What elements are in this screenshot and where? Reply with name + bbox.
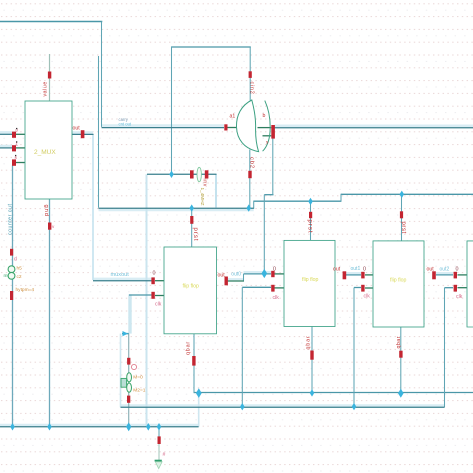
svg-text:d: d [14,257,17,263]
svg-text:#: # [163,452,166,458]
svg-text:hytpm=4: hytpm=4 [16,287,35,293]
svg-text:2_MUX: 2_MUX [34,149,56,156]
svg-text:out: out [73,126,81,132]
svg-text:0: 0 [153,271,156,277]
svg-text:m: m [4,274,8,279]
svg-text:0: 0 [456,267,459,273]
svg-text:out: out [218,273,226,279]
svg-text:b: b [263,113,266,119]
svg-text:M=0: M=0 [133,375,143,381]
svg-text:cnt out: cnt out [119,122,132,127]
svg-text:0: 0 [273,267,276,273]
svg-text:c2: c2 [17,274,22,280]
svg-text:counter out: counter out [7,203,13,235]
svg-text:qbar: qbar [305,336,311,350]
svg-text:0: 0 [363,267,366,273]
svg-text:clk: clk [456,294,463,300]
svg-text:cb2: cb2 [249,157,255,169]
svg-text:qbar: qbar [396,336,402,348]
svg-text:clk: clk [364,294,371,300]
svg-text:muxout: muxout [111,272,130,278]
svg-text:prst: prst [192,228,198,242]
svg-text:out2: out2 [440,267,450,273]
svg-text:out0: out0 [231,272,241,278]
svg-text:inv: inv [202,179,208,187]
svg-text:flip flop: flip flop [302,277,319,283]
svg-text:gnd: gnd [43,205,49,217]
svg-text:out: out [427,267,435,273]
svg-text:prst: prst [306,220,312,234]
svg-text:qbar: qbar [186,341,192,355]
svg-text:out: out [333,267,341,273]
svg-text:M2=1: M2=1 [133,387,145,393]
svg-text:flip flop: flip flop [183,284,200,290]
svg-text:clk: clk [273,295,280,301]
svg-text:value: value [42,81,48,96]
svg-text:prst: prst [400,222,406,234]
svg-text:out1: out1 [351,266,361,272]
svg-text:1_4MHZ: 1_4MHZ [200,188,205,206]
svg-text:s: s [266,140,268,145]
svg-text:cin2: cin2 [248,82,254,95]
svg-text:clk: clk [155,302,162,308]
svg-text:flip flop: flip flop [390,278,407,284]
svg-text:a1: a1 [230,114,236,120]
svg-text:h5: h5 [17,266,23,272]
